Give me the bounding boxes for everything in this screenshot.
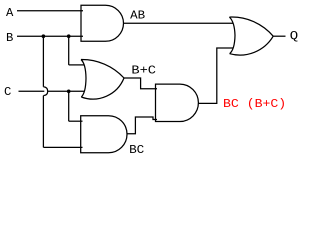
svg-text:B: B bbox=[6, 31, 13, 45]
wire B input bbox=[17, 35, 83, 37]
wire to bottom AND lower input bbox=[43, 146, 82, 148]
wire AB to output OR bbox=[124, 22, 234, 24]
svg-text:BC (B+C): BC (B+C) bbox=[223, 97, 286, 111]
svg-text:A: A bbox=[6, 6, 14, 20]
wire BC to middle AND bottom input (with jog) bbox=[127, 117, 157, 134]
svg-text:Q: Q bbox=[290, 29, 298, 43]
wire C input (broken at hop) bbox=[19, 90, 85, 92]
or-gate U5 (output) bbox=[229, 17, 273, 55]
wire to OR1 top input bbox=[69, 64, 85, 66]
wire hop over C bbox=[43, 87, 47, 96]
wire BC(B+C) up to output OR bbox=[198, 48, 233, 103]
junction dot on B (right) bbox=[67, 34, 71, 38]
wire A input bbox=[17, 10, 83, 12]
svg-text:BC: BC bbox=[129, 143, 144, 157]
or-gate U2 (B+C) bbox=[81, 59, 124, 99]
wire B+C to middle AND top input bbox=[124, 78, 157, 89]
and-gate U1 (AB) bbox=[81, 5, 123, 41]
svg-text:C: C bbox=[4, 85, 11, 99]
junction dot on C bbox=[67, 90, 71, 94]
wire to bottom AND top input bbox=[69, 120, 83, 122]
svg-text:B+C: B+C bbox=[131, 63, 156, 77]
wire B down to bottom AND (vertical, broken at hop) bbox=[42, 36, 44, 147]
wire C down to bottom AND bbox=[68, 91, 70, 121]
wire Q output bbox=[273, 35, 285, 37]
and-gate U3 (BC) bbox=[81, 116, 127, 153]
wire B down to OR gate bbox=[68, 36, 70, 65]
junction dot on B (left) bbox=[42, 34, 46, 38]
svg-text:AB: AB bbox=[130, 8, 145, 22]
and-gate U4 (BC(B+C)) bbox=[156, 84, 199, 121]
